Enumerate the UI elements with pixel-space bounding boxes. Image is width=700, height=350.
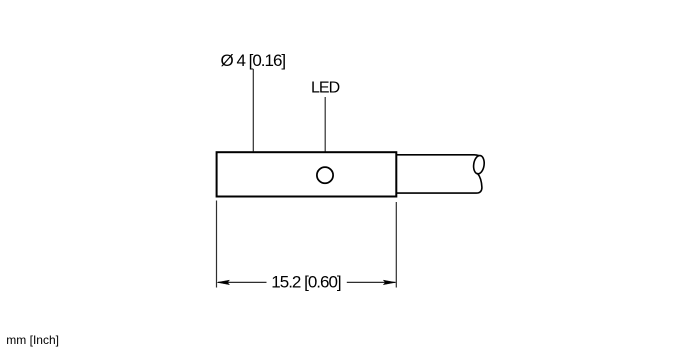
right dimension arrowhead (383, 280, 395, 285)
sensor body rectangle (217, 152, 397, 196)
cable end curve and bottom line (397, 173, 482, 193)
cable top line (397, 154, 479, 157)
right extension line (395, 202, 397, 288)
svg-text:15.2 [0.60]: 15.2 [0.60] (271, 273, 341, 292)
dimension line right segment (347, 281, 396, 283)
leader line from LED label to LED circle (324, 97, 326, 166)
leader line from Ø 4 label to body top (252, 69, 254, 151)
svg-text:LED: LED (311, 80, 340, 97)
cable break loop (472, 155, 485, 175)
svg-text:Ø 4 [0.16]: Ø 4 [0.16] (221, 51, 286, 70)
left extension line (216, 201, 218, 288)
dimension line left segment (218, 281, 267, 283)
left dimension arrowhead (217, 280, 229, 285)
svg-text:mm [Inch]: mm [Inch] (6, 333, 59, 347)
LED indicator circle (317, 167, 333, 183)
